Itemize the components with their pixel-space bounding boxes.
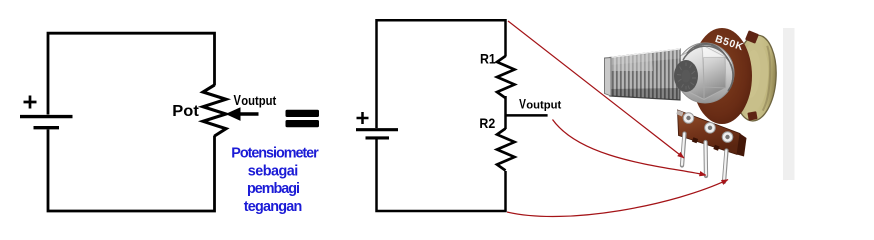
resistor R2 zigzag (497, 129, 515, 171)
pin base right side (737, 134, 747, 157)
pin 2 (703, 142, 708, 176)
resistor R1 zigzag (497, 56, 515, 98)
caption: Potensiometer sebagai pembagi tegangan (231, 146, 319, 215)
pin 1 (682, 134, 685, 166)
potentiometer Pot zigzag (203, 85, 226, 136)
potentiometer wiper arrow (226, 107, 241, 121)
pot body (phenolic disc) (692, 28, 752, 124)
pot crimp tab (top) (745, 30, 759, 43)
shaft knurled end disc (674, 60, 698, 92)
nut top highlight (702, 45, 725, 58)
wire: R1 to R2 segment (504, 96, 507, 129)
svg-text:Potensiometer: Potensiometer (231, 146, 319, 162)
solder eyelet 3 (722, 132, 733, 143)
annotation wire: top terminal to pin 1 (508, 21, 684, 158)
svg-text:output: output (241, 94, 277, 108)
battery BT1 positive plate (20, 115, 73, 118)
nut facet lines (681, 45, 726, 100)
knurled shaft (605, 49, 681, 100)
wire: Voutput stub (506, 114, 548, 117)
solder eyelet 2 (705, 123, 716, 134)
base bottom notch 1 (692, 137, 698, 143)
base bottom notch 2 (713, 145, 719, 151)
battery BT2 plus sign (357, 112, 369, 124)
battery BT2 positive plate (356, 128, 398, 131)
wire: left-circuit bottom loop (48, 130, 215, 212)
solder eyelet 1 (683, 113, 694, 124)
svg-text:sebagai: sebagai (248, 163, 299, 179)
annotation wire: bottom wire to pin 3 (507, 180, 728, 217)
pot crimp tab (bottom) (747, 111, 757, 120)
svg-text:tegangan: tegangan (244, 199, 303, 215)
annotation wire: Voutput to pin 2 (553, 120, 707, 176)
photo background strip (783, 28, 795, 180)
equals sign (286, 110, 320, 117)
bushing flange (676, 43, 734, 103)
battery BT1 plus sign (24, 96, 37, 109)
base corner bracket tab (676, 110, 683, 117)
svg-text:R1: R1 (480, 52, 496, 67)
battery BT1 negative plate (34, 126, 60, 129)
svg-text:V: V (234, 93, 242, 109)
pin base (phenolic block) (678, 110, 741, 155)
pin 3 (724, 151, 727, 183)
wire: left-circuit top/left/right loop (48, 33, 215, 114)
wire: right-circuit bottom loop (377, 140, 506, 212)
svg-text:output: output (526, 99, 561, 111)
pot back cover (gold disc) (731, 34, 779, 123)
battery BT2 negative plate (366, 136, 390, 139)
svg-text:R2: R2 (479, 116, 495, 131)
mounting nut (680, 45, 726, 100)
svg-text:Pot: Pot (172, 103, 199, 120)
svg-text:pembagi: pembagi (247, 181, 300, 197)
wire: right-circuit top/left/right loop (377, 20, 506, 128)
svg-text:V: V (519, 96, 526, 111)
bushing thread rings (683, 44, 733, 91)
